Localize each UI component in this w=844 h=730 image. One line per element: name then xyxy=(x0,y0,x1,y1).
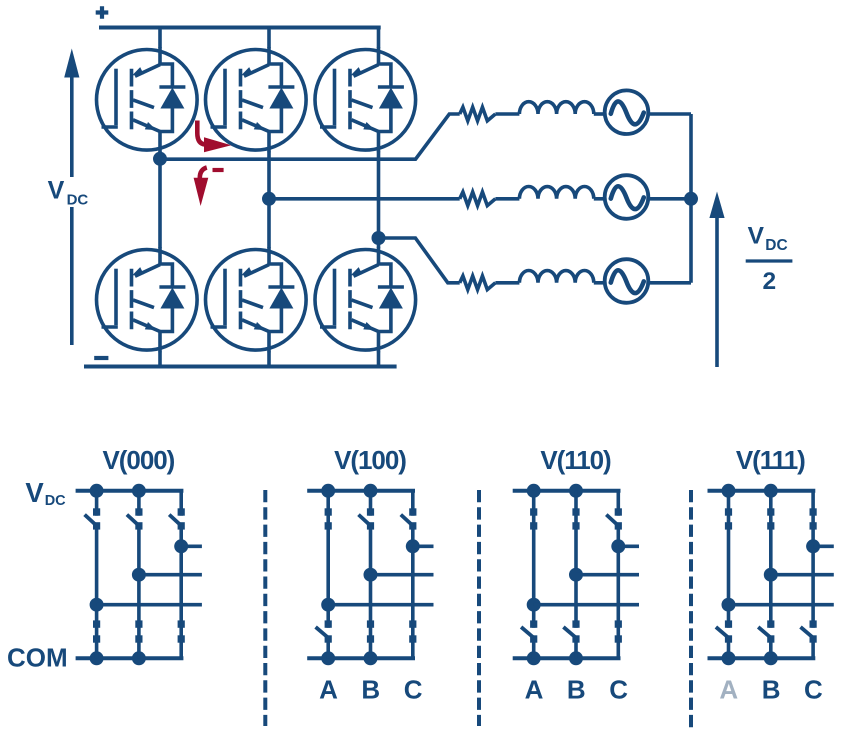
V(100) rail dot A top xyxy=(321,484,335,498)
red current hook arrow (into node A) xyxy=(197,121,205,145)
V(000) rail dot A top xyxy=(90,484,104,498)
bus drop to IGBT Q1 xyxy=(158,26,162,49)
V(110) phase A high-side switch (closed) xyxy=(532,491,536,605)
svg-text:COM: COM xyxy=(7,643,68,673)
V_DC arrow xyxy=(70,76,74,345)
V(111) rail dot B top xyxy=(764,484,778,498)
V(100) COM rail xyxy=(307,656,415,660)
V(000) phase A high-side switch (open) xyxy=(95,491,99,516)
V(000) phase C high-side switch (open) xyxy=(179,491,183,516)
V(111) rail dot A bottom xyxy=(722,651,736,665)
node C junction dot xyxy=(372,231,386,245)
V(110) node C output dot xyxy=(611,539,625,553)
V(100) node B output wire xyxy=(371,573,434,577)
svg-text:A: A xyxy=(525,675,544,705)
AC source C sine xyxy=(611,270,644,293)
V(110) node B output dot xyxy=(569,568,583,582)
svg-text:V(110): V(110) xyxy=(540,445,611,475)
red minus sign xyxy=(213,168,224,172)
svg-text:V(000): V(000) xyxy=(103,445,175,475)
V(100) phase A high-side switch (closed) xyxy=(326,491,330,605)
V(000) COM rail xyxy=(76,656,184,660)
emitter to negative bus (Q6) xyxy=(377,352,381,367)
bus drop to IGBT Q3 xyxy=(377,26,381,49)
svg-text:V(111): V(111) xyxy=(736,445,805,475)
svg-text:A: A xyxy=(319,675,338,705)
red return arrowhead (down) xyxy=(194,178,209,206)
positive DC bus xyxy=(99,26,381,30)
V(100) node A output dot xyxy=(321,598,335,612)
neutral junction dot xyxy=(684,192,698,206)
resistor RC xyxy=(460,276,496,290)
V(111) rail dot B bottom xyxy=(764,651,778,665)
V(110) rail dot A bottom xyxy=(527,651,541,665)
dashed separator 1 xyxy=(263,490,267,726)
V(000) phase B high-side switch (open) xyxy=(137,491,141,516)
V(000) phase B low-side switch (closed) xyxy=(137,575,141,659)
phase C output wire xyxy=(379,238,460,283)
V(100) phase C high-side switch (open) xyxy=(411,491,415,516)
wire RB-LB xyxy=(495,197,519,201)
V(000) node B output wire xyxy=(139,573,202,577)
svg-text:V: V xyxy=(48,177,65,205)
V(100) node A output wire xyxy=(328,603,433,607)
V(111) V_DC rail xyxy=(708,489,816,493)
svg-text:A: A xyxy=(719,675,738,705)
V(111) phase C low-side switch (open) xyxy=(811,546,815,628)
svg-text:V: V xyxy=(25,477,44,508)
V(000) node A output dot xyxy=(90,598,104,612)
V(111) node B output wire xyxy=(771,573,834,577)
phase C leg wire xyxy=(377,152,381,249)
V(111) node C output wire xyxy=(813,544,834,548)
bus drop to IGBT Q2 xyxy=(267,26,271,49)
AC source B circle xyxy=(605,175,649,219)
svg-text:C: C xyxy=(404,675,423,705)
V(100) V_DC rail xyxy=(307,489,415,493)
node B junction dot xyxy=(262,192,276,206)
inductor LA xyxy=(519,102,593,114)
minus terminal label xyxy=(94,356,108,360)
node A junction dot xyxy=(153,152,167,166)
AC source C circle xyxy=(605,259,649,303)
V(110) phase B high-side switch (closed) xyxy=(574,491,578,575)
AC source B sine xyxy=(611,186,644,209)
resistor RA xyxy=(460,107,496,121)
AC source A circle xyxy=(605,90,649,134)
negative DC bus xyxy=(84,365,397,369)
V(111) phase B high-side switch (closed) xyxy=(769,491,773,575)
AC source A sine xyxy=(611,101,644,124)
V(110) COM rail xyxy=(513,656,621,660)
svg-text:DC: DC xyxy=(67,191,89,208)
phase B output wire xyxy=(269,197,460,201)
IGBT module Q2 (top, phase B) xyxy=(206,47,307,152)
svg-text:B: B xyxy=(567,675,586,705)
IGBT module Q6 (bottom, phase C) xyxy=(315,247,416,352)
svg-text:B: B xyxy=(762,675,781,705)
V(100) phase C low-side switch (closed) xyxy=(411,546,415,658)
V(110) rail dot B top xyxy=(569,484,583,498)
fraction bar xyxy=(746,259,793,262)
V(110) rail dot B bottom xyxy=(569,651,583,665)
IGBT module Q1 (top, phase A) xyxy=(97,47,198,152)
V(111) phase A low-side switch (open) xyxy=(727,605,731,628)
svg-text:2: 2 xyxy=(762,268,776,295)
V(111) phase C high-side switch (closed) xyxy=(811,491,815,547)
wire RA-LA xyxy=(495,112,519,116)
inductor LB xyxy=(519,187,593,199)
V(110) node A output dot xyxy=(527,598,541,612)
V(111) node A output wire xyxy=(729,603,834,607)
svg-text:C: C xyxy=(804,675,823,705)
red current hook arrowhead xyxy=(204,137,231,152)
V(000) phase C low-side switch (closed) xyxy=(179,546,183,658)
red return arrow tail xyxy=(200,168,207,179)
wire source B to right bus xyxy=(648,197,691,201)
svg-text:V: V xyxy=(748,222,765,249)
V(000) phase A low-side switch (closed) xyxy=(95,605,99,659)
inductor LC xyxy=(519,271,593,283)
V(100) rail dot B bottom xyxy=(364,651,378,665)
V(100) rail dot B top xyxy=(364,484,378,498)
V(110) node C output wire xyxy=(618,544,639,548)
V(000) rail dot A bottom xyxy=(90,651,104,665)
IGBT module Q5 (bottom, phase B) xyxy=(206,247,307,352)
plus terminal label xyxy=(96,6,109,19)
V(110) phase A low-side switch (open) xyxy=(532,605,536,628)
V(100) rail dot A bottom xyxy=(321,651,335,665)
svg-text:C: C xyxy=(609,675,628,705)
V(110) rail dot A top xyxy=(527,484,541,498)
V(110) phase B low-side switch (open) xyxy=(574,575,578,628)
V(100) phase B high-side switch (open) xyxy=(369,491,373,516)
IGBT module Q3 (top, phase C) xyxy=(315,47,416,152)
V(000) rail dot B top xyxy=(132,484,146,498)
wire LB-source B xyxy=(594,197,604,201)
svg-text:V(100): V(100) xyxy=(334,445,406,475)
wire source C to right bus xyxy=(648,281,691,285)
V(111) COM rail xyxy=(708,656,816,660)
V(111) rail dot A top xyxy=(722,484,736,498)
V(000) node B output dot xyxy=(132,568,146,582)
V(110) node A output wire xyxy=(534,603,639,607)
V(000) node A output wire xyxy=(97,603,202,607)
right neutral bus xyxy=(689,114,693,283)
V(111) phase B low-side switch (open) xyxy=(769,575,773,628)
V(110) phase C high-side switch (open) xyxy=(616,491,620,516)
dashed separator 3 xyxy=(689,490,693,728)
svg-text:DC: DC xyxy=(45,493,66,509)
emitter to negative bus (Q5) xyxy=(267,352,271,367)
V(100) node C output dot xyxy=(406,539,420,553)
V(111) phase A high-side switch (closed) xyxy=(727,491,731,605)
phase A leg wire xyxy=(158,152,162,249)
wire LA-source A xyxy=(594,112,604,116)
V(110) V_DC rail xyxy=(513,489,621,493)
V(100) node B output dot xyxy=(364,568,378,582)
V(100) node C output wire xyxy=(413,544,434,548)
V(111) node C output dot xyxy=(806,539,820,553)
phase A output wire xyxy=(160,114,460,159)
wire LC-source C xyxy=(594,281,604,285)
wire source A to right bus xyxy=(648,112,691,116)
V(110) phase C low-side switch (closed) xyxy=(616,546,620,658)
V_DC/2 arrow xyxy=(715,216,719,367)
IGBT module Q4 (bottom, phase A) xyxy=(97,247,198,352)
svg-text:DC: DC xyxy=(765,237,787,254)
V(000) node C output dot xyxy=(174,539,188,553)
V(110) node B output wire xyxy=(576,573,639,577)
resistor RB xyxy=(460,192,496,206)
dashed separator 2 xyxy=(477,490,481,726)
wire RC-LC xyxy=(495,281,519,285)
svg-text:B: B xyxy=(361,675,380,705)
V(000) node C output wire xyxy=(181,544,202,548)
phase B leg wire xyxy=(267,152,271,249)
V(100) phase B low-side switch (closed) xyxy=(369,575,373,659)
emitter to negative bus (Q4) xyxy=(158,352,162,367)
V(000) V_DC rail xyxy=(76,489,184,493)
V(111) node A output dot xyxy=(722,598,736,612)
V(000) rail dot B bottom xyxy=(132,651,146,665)
V(111) node B output dot xyxy=(764,568,778,582)
V(100) phase A low-side switch (open) xyxy=(326,605,330,628)
